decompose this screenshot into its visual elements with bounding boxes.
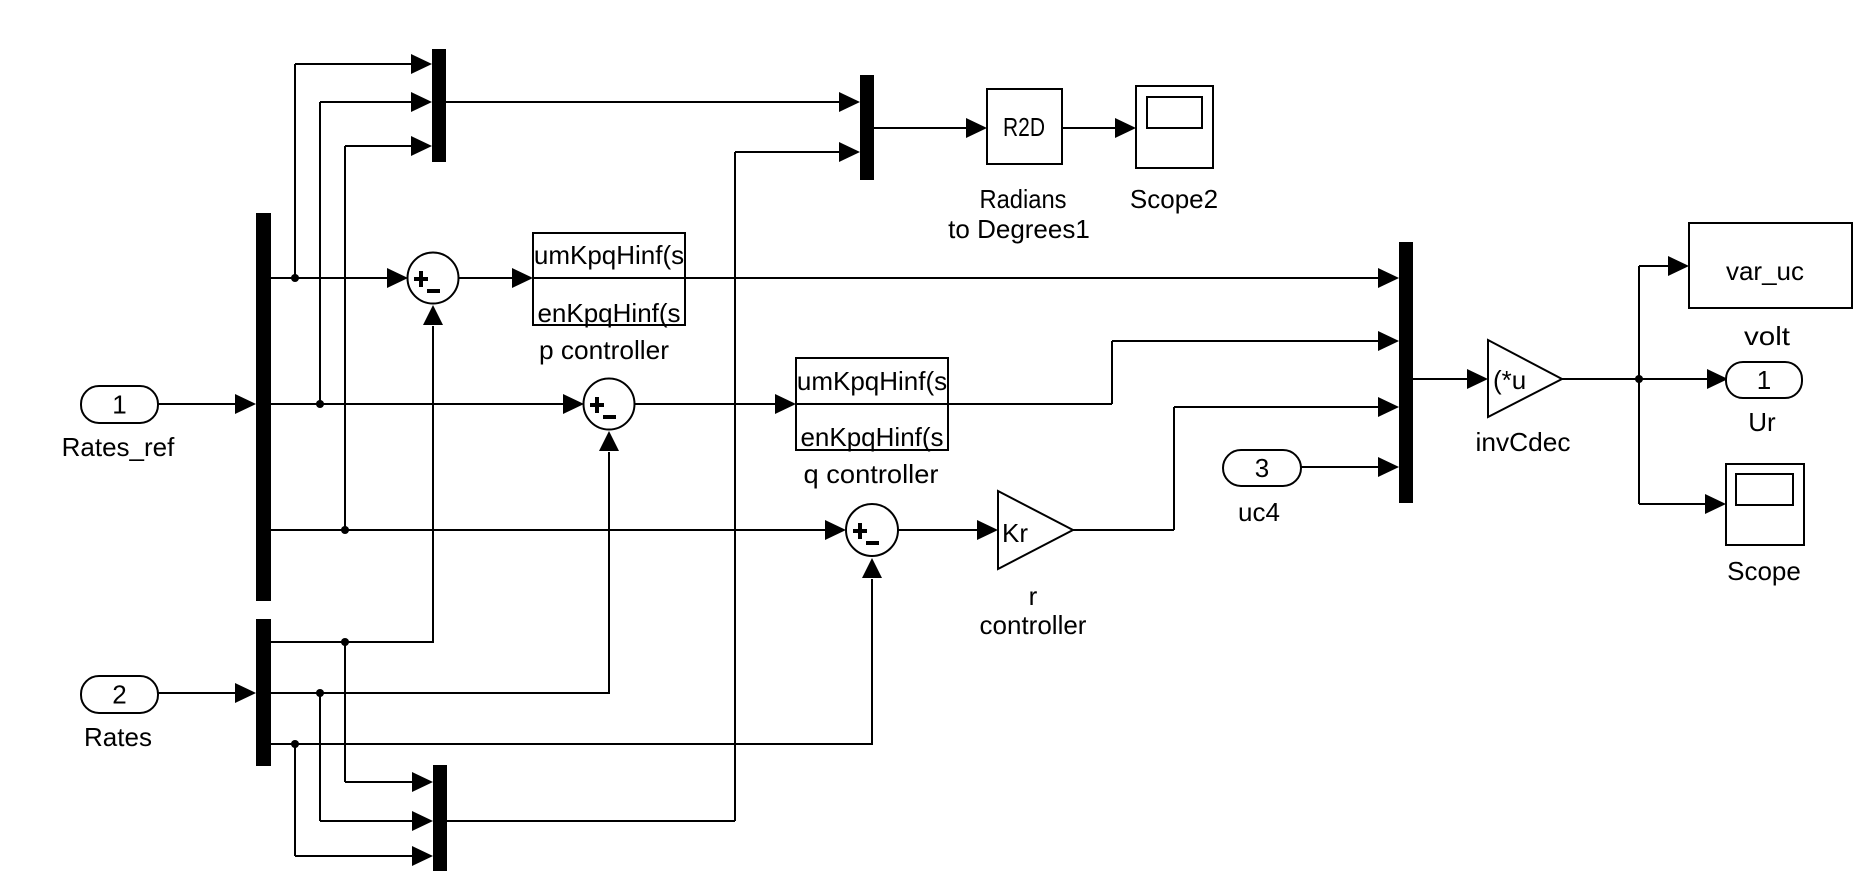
demux D1 (Rates_ref splitter): [256, 213, 271, 601]
svg-text:Radians: Radians: [980, 184, 1067, 214]
svg-text:2: 2: [112, 680, 126, 710]
mux M4 top-right: [860, 75, 874, 180]
demux D2 (Rates splitter): [256, 619, 271, 766]
svg-text:p controller: p controller: [539, 335, 669, 365]
wire branch up to mux M1 input1: [294, 64, 296, 278]
svg-text:Kr: Kr: [1002, 518, 1028, 548]
svg-text:var_uc: var_uc: [1726, 256, 1804, 286]
svg-text:controller: controller: [980, 610, 1087, 640]
to-workspace block var_uc: [1689, 223, 1852, 308]
svg-text:Rates: Rates: [84, 722, 152, 752]
wire gain Kr to mux M3 input3: [1073, 529, 1174, 531]
wire D2 out3 to r sum minus: [271, 743, 873, 745]
wire branch up to var_uc: [1638, 266, 1640, 379]
svg-text:umKpqHinf(s: umKpqHinf(s: [534, 240, 684, 270]
wire D2 out2 to q sum minus: [271, 692, 610, 694]
svg-text:enKpqHinf(s: enKpqHinf(s: [537, 298, 680, 328]
svg-text:uc4: uc4: [1238, 497, 1280, 527]
sum block S1 (p): [408, 253, 459, 304]
sum block S3 (r): [846, 504, 898, 556]
wire branch up to mux M1 input3: [344, 146, 346, 530]
wire branch down to mux M2 input3: [294, 744, 296, 856]
mux M2 bottom: [433, 765, 447, 871]
wire port2 to demux D2: [158, 692, 236, 694]
wire p sum to p controller: [458, 277, 513, 279]
mux M3 main 4-input: [1399, 242, 1413, 503]
wire R2D to Scope2: [1062, 127, 1116, 129]
svg-text:invCdec: invCdec: [1476, 427, 1571, 457]
gain block invCdec K*u: [1488, 340, 1562, 417]
mux M1 top-left: [432, 49, 446, 162]
wire port1 to demux D1: [158, 403, 236, 405]
wire mux M4 to R2D: [874, 127, 967, 129]
wire mux M2 output to mux M4 input2: [447, 820, 735, 822]
scope block Scope2: [1136, 86, 1213, 168]
svg-text:R2D: R2D: [1003, 112, 1045, 142]
transfer fn block q controller: [796, 358, 948, 450]
svg-text:Scope2: Scope2: [1130, 184, 1218, 214]
svg-text:enKpqHinf(s: enKpqHinf(s: [800, 422, 943, 452]
svg-text:Rates_ref: Rates_ref: [62, 432, 175, 462]
svg-text:to Degrees1: to Degrees1: [948, 214, 1090, 244]
svg-text:q controller: q controller: [804, 459, 939, 489]
svg-text:3: 3: [1255, 453, 1269, 483]
wire D1 out3 to r sum: [271, 529, 828, 531]
svg-text:1: 1: [112, 390, 126, 420]
gain block Kr: [998, 491, 1073, 569]
svg-text:volt: volt: [1744, 321, 1791, 351]
wire branch down to mux M2 input2: [319, 693, 321, 821]
input port 3 (uc4) oval: [1223, 450, 1301, 486]
output port 1 (Ur) oval: [1726, 362, 1802, 398]
wire r sum to gain Kr: [898, 529, 978, 531]
wire branch down to Scope: [1638, 379, 1640, 504]
wire p controller to mux M3 input1: [685, 277, 1379, 279]
block R2D Radians to Degrees1: [987, 89, 1062, 164]
transfer fn block p controller: [533, 233, 685, 325]
sum block S2 (q): [584, 379, 635, 430]
wire branch up to mux M1 input2: [319, 102, 321, 404]
scope block Scope: [1726, 464, 1804, 545]
wire branch down to mux M2 input1: [344, 642, 346, 782]
svg-text:(*u: (*u: [1493, 365, 1526, 395]
wire q sum to q controller: [634, 403, 776, 405]
svg-text:umKpqHinf(s: umKpqHinf(s: [797, 366, 947, 396]
input port 1 (Rates_ref) oval: [81, 386, 158, 423]
svg-text:Scope: Scope: [1727, 556, 1801, 586]
svg-text:Ur: Ur: [1748, 407, 1776, 437]
wire invCdec to output port Ur: [1562, 378, 1707, 380]
wire port3 to mux M3 input4: [1301, 466, 1379, 468]
svg-text:1: 1: [1757, 365, 1771, 395]
wire mux M3 output to gain invCdec: [1413, 378, 1468, 380]
wire D1 out1 to p sum: [271, 277, 390, 279]
wire q controller to mux M3 input2: [948, 403, 1112, 405]
wire D2 out1 to p sum minus: [271, 641, 434, 643]
svg-text:r: r: [1029, 581, 1038, 611]
wire mux M1 output to mux M4 input1: [446, 101, 840, 103]
input port 2 (Rates) oval: [81, 676, 158, 713]
wire D1 out2 to q sum: [271, 403, 566, 405]
